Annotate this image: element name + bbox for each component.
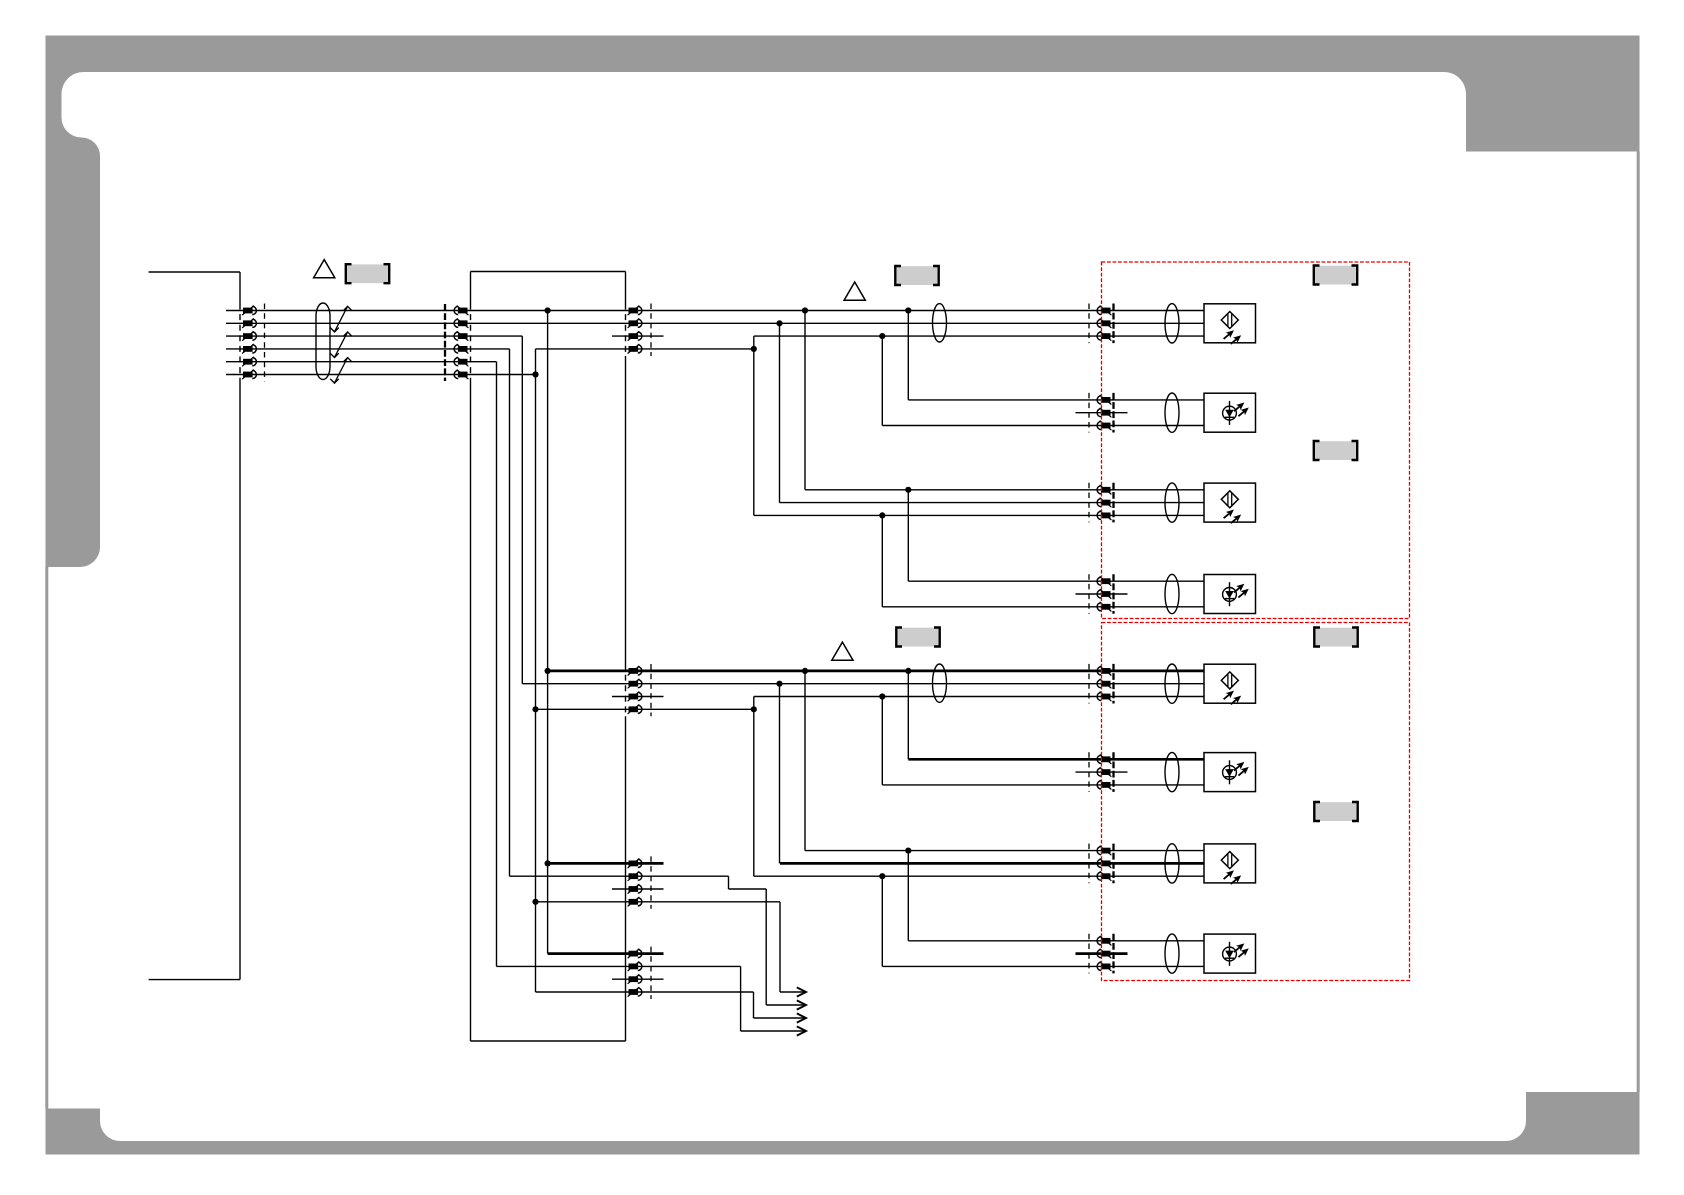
wire vertical branch to S3 row2 bbox=[779, 323, 781, 502]
wire CN3-D pin1 stub (bold) bbox=[548, 952, 664, 955]
unused pin stub row3 at CN3 bbox=[612, 335, 664, 337]
connector CN4-4 pin 1 bbox=[1097, 576, 1111, 586]
connector CN4-7 pin 3 bbox=[1097, 871, 1111, 881]
unused pin stub CN3-C pin3 bbox=[612, 888, 664, 890]
arrow head (off-page connector 2) bbox=[797, 1000, 806, 1009]
connector CN3-B pin 4 bbox=[628, 704, 642, 714]
label tag 6 (unit name lower A) bbox=[1314, 628, 1357, 647]
wire drop to arrow 2 bbox=[765, 889, 767, 1005]
wire row1 (+supply) CN1 to sensor S1 bbox=[226, 310, 1204, 312]
wire CN3-D pin4 net bbox=[536, 991, 754, 993]
sensor unit assembly box 1 (red dashed) bbox=[1102, 262, 1410, 619]
unused pin stub S6 row2 bbox=[1076, 771, 1128, 773]
connector CN4-6 pin 3 bbox=[1097, 780, 1111, 790]
warning triangle note 1 bbox=[314, 260, 335, 278]
main PCB block left edge lower bbox=[470, 382, 472, 1042]
connector CN3-C pin 2 bbox=[628, 871, 642, 881]
wire vertical branch to S2 row3 bbox=[881, 336, 883, 425]
connector CN3-D pin 4 bbox=[628, 987, 642, 997]
connector CN2 pin 5 bbox=[454, 357, 468, 367]
wire vertical branch to S3 row3 bbox=[753, 336, 755, 515]
junction node 15 bbox=[532, 706, 538, 712]
connector CN4-2 pin 3 bbox=[1097, 421, 1111, 431]
photo sensor S4 emitter symbol bbox=[1223, 581, 1251, 606]
connector CN4-4 dashed boundary (bold) bbox=[1112, 574, 1114, 614]
junction node 8 bbox=[905, 487, 911, 493]
cable bundle sheath (main harness) bbox=[316, 303, 330, 380]
connector CN4-3 pin 2 bbox=[1097, 498, 1111, 508]
wire vertical net row5 branch bbox=[496, 362, 498, 967]
label tag 7 (unit name lower B) bbox=[1314, 802, 1357, 821]
photo sensor S4 body bbox=[1204, 575, 1256, 614]
wire vertical branch to S7 row2 bbox=[779, 684, 781, 864]
twisted-pair mark rows 3-4 bbox=[330, 332, 352, 358]
connector CN4-3 dashed boundary (thin) bbox=[1088, 483, 1090, 523]
connector CN1 pin 6 bbox=[242, 370, 256, 380]
connector CN3-A dashed boundary bbox=[650, 304, 652, 357]
wire sensor S8 row1 bbox=[908, 940, 1204, 942]
photo sensor S5 body bbox=[1204, 664, 1256, 703]
connector CN4-5 dashed boundary (thin) bbox=[1088, 664, 1090, 704]
twisted-pair mark rows 1-2 bbox=[330, 306, 352, 332]
wire drop to arrow 1 bbox=[779, 902, 781, 992]
photo sensor S8 emitter symbol bbox=[1223, 941, 1251, 966]
wire row4 mid segment bbox=[536, 348, 754, 350]
connector CN1 pin 3 bbox=[242, 331, 256, 341]
connector CN1 dashed boundary bbox=[264, 304, 266, 382]
connector CN4-1 pin 2 bbox=[1097, 318, 1111, 328]
wire sensor S6 row1 (bold) bbox=[908, 758, 1204, 761]
junction node 11 bbox=[802, 668, 808, 674]
connector CN4-3 pin 3 bbox=[1097, 511, 1111, 520]
connector CN1 pin 5 bbox=[242, 357, 256, 367]
cable bundle sheath (sensor S3) bbox=[1165, 483, 1179, 522]
junction node 18 bbox=[545, 860, 551, 866]
main PCB block left edge dashed at connector CN2 bbox=[470, 304, 472, 382]
wire main bus vertical (solid lower part) bbox=[239, 382, 241, 980]
wire vertical branch to S6 row3 bbox=[881, 697, 883, 785]
connector CN4-5 pin 2 bbox=[1097, 679, 1111, 689]
label tag 1 (harness ref) bbox=[346, 264, 389, 283]
cable bundle sheath (sensor S1) bbox=[1165, 304, 1179, 343]
connector CN4-4 pin 2 bbox=[1097, 589, 1111, 599]
connector CN4-2 dashed boundary (thin) bbox=[1088, 393, 1090, 433]
connector CN3-B pin 1 bbox=[628, 666, 642, 676]
main PCB block right edge dashed at connector CN3-B bbox=[625, 664, 627, 716]
cable bundle sheath (sensor S4) bbox=[1165, 574, 1179, 613]
photo sensor S8 body bbox=[1204, 934, 1256, 973]
unused pin stub S2 row2 bbox=[1076, 412, 1128, 414]
unused pin stub CN3-D pin3 bbox=[612, 978, 664, 980]
wire vertical branch to S4 row3 bbox=[881, 515, 883, 606]
main PCB block outline (top edge) bbox=[471, 271, 626, 273]
connector CN3-B pin 3 bbox=[628, 692, 642, 702]
unused pin stub S8 row2 (bold) bbox=[1076, 952, 1128, 955]
wire sensor S6 row3 bbox=[882, 784, 1204, 786]
wire vertical branch to S8 row1 bbox=[907, 851, 909, 941]
wire row2 (signal) CN1 to sensor S1 bbox=[226, 322, 1204, 324]
arrow head (off-page connector 3) bbox=[797, 1013, 806, 1022]
wire CN3-C pin4 net bbox=[536, 901, 781, 903]
connector CN4-6 pin 2 bbox=[1097, 767, 1111, 777]
wire to arrow 1 bbox=[780, 991, 805, 993]
connector CN4-7 dashed boundary (thin) bbox=[1088, 844, 1090, 884]
connector CN2 pin 2 bbox=[454, 318, 468, 328]
connector CN4-6 dashed boundary (thin) bbox=[1088, 752, 1090, 792]
connector CN4-3 pin 1 bbox=[1097, 485, 1111, 495]
wire vertical net row3 branch bbox=[521, 336, 523, 684]
wire drop to arrow 4 bbox=[740, 966, 742, 1031]
junction node 2 bbox=[802, 307, 808, 313]
photo sensor S3 body bbox=[1204, 483, 1256, 522]
connector CN3-D pin 2 bbox=[628, 962, 642, 972]
junction node 19 bbox=[879, 873, 885, 879]
wire sensor S5 row3 bbox=[754, 696, 1204, 698]
connector CN3-C dashed boundary bbox=[650, 856, 652, 908]
wire CN3-D pin2 net bbox=[497, 965, 741, 967]
label tag 3 (connector ref lower) bbox=[896, 628, 939, 647]
photo sensor S5 receiver symbol bbox=[1221, 672, 1243, 707]
junction node 13 bbox=[776, 681, 782, 687]
wire CN3-C pin2 to jog bbox=[510, 875, 729, 877]
wire sensor S2 row3 bbox=[882, 425, 1204, 427]
connector CN2 pin 6 bbox=[454, 370, 468, 380]
wire sensor S8 row3 bbox=[882, 965, 1204, 967]
main PCB block left edge upper bbox=[470, 272, 472, 304]
junction node 4 bbox=[776, 320, 782, 326]
sensor unit assembly box 2 (red dashed) bbox=[1102, 623, 1410, 981]
wire sensor S7 row3 bbox=[754, 875, 1204, 877]
cable bundle sheath (sensor S5) bbox=[1165, 664, 1179, 703]
photo sensor S2 emitter symbol bbox=[1223, 400, 1251, 425]
wire row4 CN1 to junction bbox=[226, 348, 510, 350]
wire vertical branch to S8 row3 bbox=[881, 876, 883, 966]
cable bundle sheath (sensor S7) bbox=[1165, 844, 1179, 883]
connector CN3-A pin 3 bbox=[628, 331, 642, 341]
connector CN4-2 pin 1 bbox=[1097, 395, 1111, 405]
unused pin stub S4 row2 bbox=[1076, 593, 1128, 595]
photo sensor S3 receiver symbol bbox=[1221, 491, 1243, 526]
main PCB block right edge middle bbox=[625, 356, 627, 664]
wire vertical branch to S7 row3 bbox=[753, 697, 755, 877]
connector CN3-C pin 3 bbox=[628, 884, 642, 894]
connector CN4-8 pin 2 bbox=[1097, 949, 1111, 959]
connector CN4-6 dashed boundary (bold) bbox=[1112, 752, 1114, 792]
connector CN4-5 dashed boundary (bold) bbox=[1112, 664, 1114, 704]
wire sensor S3 row3 bbox=[754, 514, 1204, 516]
wire to arrow 3 bbox=[754, 1017, 805, 1019]
connector CN4-7 pin 1 bbox=[1097, 846, 1111, 856]
warning triangle note 2 bbox=[844, 282, 865, 300]
warning triangle note 3 bbox=[832, 642, 853, 660]
wire sensor S7 row1 bbox=[805, 850, 1204, 852]
connector CN3-C pin 4 bbox=[628, 897, 642, 907]
connector CN2 pin 4 bbox=[454, 344, 468, 354]
photo sensor S7 receiver symbol bbox=[1221, 852, 1243, 887]
connector CN4-8 dashed boundary (bold) bbox=[1112, 934, 1114, 974]
wire sensor S3 row2 bbox=[780, 502, 1205, 504]
wire row6 CN1 into PCB bbox=[226, 374, 536, 376]
connector CN3-B pin 2 bbox=[628, 679, 642, 689]
connector CN4-1 pin 1 bbox=[1097, 306, 1111, 316]
wire row3 continuation to sensor S1 bbox=[754, 335, 1204, 337]
wire vertical branch to S3 row1 bbox=[804, 311, 806, 490]
connector CN4-2 pin 2 bbox=[1097, 408, 1111, 418]
junction node 17 bbox=[905, 848, 911, 854]
connector CN4-5 pin 3 bbox=[1097, 692, 1111, 702]
connector CN4-5 pin 1 bbox=[1097, 666, 1111, 676]
photo sensor S2 body bbox=[1204, 393, 1256, 432]
wire sensor S2 row1 bbox=[908, 399, 1204, 401]
connector CN4-4 dashed boundary (thin) bbox=[1088, 574, 1090, 614]
wire sensor S3 row1 bbox=[805, 489, 1204, 491]
wire sensor S5 row1 (bold) bbox=[548, 670, 1204, 673]
wire CN3-C pin1 stub (bold) bbox=[548, 862, 664, 865]
cable bundle sheath (sensor S8) bbox=[1165, 934, 1179, 973]
wire vertical net row4 branch bbox=[509, 349, 511, 876]
photo sensor S1 body bbox=[1204, 304, 1256, 343]
connector CN1 pin 4 bbox=[242, 344, 256, 354]
wire jog from CN3-C pin2 (right) bbox=[729, 888, 767, 890]
photo sensor S1 receiver symbol bbox=[1221, 312, 1243, 347]
wire sensor S4 row3 bbox=[882, 606, 1204, 608]
arrow head (off-page connector 1) bbox=[797, 987, 806, 996]
wire row3 CN1 to junction bbox=[226, 335, 522, 337]
junction node 9 bbox=[879, 512, 885, 518]
wire harness bottom stub bbox=[149, 979, 240, 981]
connector CN4-1 pin 3 bbox=[1097, 331, 1111, 341]
connector CN4-8 pin 1 bbox=[1097, 936, 1111, 946]
arrow head (off-page connector 4) bbox=[797, 1026, 806, 1035]
wire row5 CN1 into PCB bbox=[226, 361, 497, 363]
connector CN3-A pin 2 bbox=[628, 318, 642, 328]
wire CN3-B pin4 net bbox=[536, 708, 754, 710]
wire vertical branch to S2 row1 bbox=[907, 311, 909, 400]
connector CN3-B dashed boundary bbox=[650, 664, 652, 716]
junction node 12 bbox=[905, 668, 911, 674]
unused pin stub CN3-B pin3 bbox=[612, 696, 664, 698]
connector CN4-7 pin 2 bbox=[1097, 859, 1111, 869]
connector CN3-A pin 4 bbox=[628, 344, 642, 354]
wire main bus vertical (solid upper part) bbox=[239, 272, 241, 304]
wire to arrow 4 bbox=[741, 1030, 805, 1032]
connector CN4-8 dashed boundary (thin) bbox=[1088, 934, 1090, 974]
connector CN4-2 dashed boundary (bold) bbox=[1112, 393, 1114, 433]
cable bundle sheath (sensor S6) bbox=[1165, 752, 1179, 791]
wire vertical branch to S4 row1 bbox=[907, 490, 909, 581]
photo sensor S6 body bbox=[1204, 753, 1256, 792]
wire vertical branch to S7 row1 bbox=[804, 671, 806, 851]
photo sensor S7 body bbox=[1204, 844, 1256, 883]
label tag 2 (connector ref upper) bbox=[895, 266, 938, 285]
junction node 16 bbox=[751, 706, 757, 712]
connector CN3-A pin 1 bbox=[628, 306, 642, 316]
wire sensor S7 row2 (bold) bbox=[780, 862, 1204, 865]
junction node 5 bbox=[879, 333, 885, 339]
label tag 4 (unit name upper A) bbox=[1314, 266, 1357, 285]
connector CN4-1 dashed boundary (thin) bbox=[1088, 304, 1090, 344]
junction node 10 bbox=[545, 668, 551, 674]
connector CN3-D pin 1 bbox=[628, 949, 642, 959]
connector CN3-C pin 1 bbox=[628, 859, 642, 869]
connector CN4-6 pin 1 bbox=[1097, 754, 1111, 764]
wire vertical branch to S6 row1 bbox=[907, 671, 909, 759]
label tag 5 (unit name upper B) bbox=[1314, 441, 1357, 460]
connector CN4-8 pin 3 bbox=[1097, 962, 1111, 972]
wire sensor S5 row2 bbox=[522, 683, 1204, 685]
wire jog from CN3-C pin2 (down) bbox=[728, 876, 730, 889]
photo sensor S6 emitter symbol bbox=[1223, 759, 1251, 784]
connector CN1 pin 2 bbox=[242, 318, 256, 328]
connector CN4-7 dashed boundary (bold) bbox=[1112, 844, 1114, 884]
connector CN3-D dashed boundary bbox=[650, 947, 652, 999]
connector CN3-D pin 3 bbox=[628, 974, 642, 984]
twisted-pair mark rows 5-6 bbox=[330, 358, 352, 384]
connector CN2 pin 1 bbox=[454, 306, 468, 316]
wire main bus vertical (dashed at connector CN1) bbox=[239, 304, 241, 382]
wire drop to arrow 3 bbox=[753, 992, 755, 1018]
main PCB block right edge lower bbox=[625, 716, 627, 1041]
wire vertical net row1 branch bbox=[547, 311, 549, 954]
connector CN2 dashed boundary (bold) bbox=[444, 304, 446, 381]
junction node 20 bbox=[532, 899, 538, 905]
connector CN4-3 dashed boundary (bold) bbox=[1112, 483, 1114, 523]
main PCB block outline (bottom edge) bbox=[471, 1040, 626, 1042]
junction node 6 bbox=[751, 346, 757, 352]
junction node 7 bbox=[532, 371, 538, 377]
cable bundle sheath (sensor S2) bbox=[1165, 393, 1179, 432]
wire harness top stub bbox=[149, 271, 240, 273]
junction node 14 bbox=[879, 693, 885, 699]
connector CN4-1 dashed boundary (bold) bbox=[1112, 304, 1114, 344]
main PCB block right edge upper bbox=[625, 272, 627, 304]
main PCB block right edge dashed at connector CN3-A bbox=[625, 304, 627, 357]
connector CN2 pin 3 bbox=[454, 331, 468, 341]
wire to arrow 2 bbox=[766, 1004, 804, 1006]
cable bundle sheath (upper branch) bbox=[933, 304, 947, 342]
junction node 3 bbox=[905, 307, 911, 313]
wire vertical net row6 branch bbox=[535, 349, 537, 992]
cable bundle sheath (lower branch) bbox=[933, 664, 947, 702]
junction node 1 bbox=[545, 307, 551, 313]
connector CN4-4 pin 3 bbox=[1097, 602, 1111, 612]
wire sensor S4 row1 bbox=[908, 580, 1204, 582]
connector CN1 pin 1 bbox=[242, 306, 256, 316]
